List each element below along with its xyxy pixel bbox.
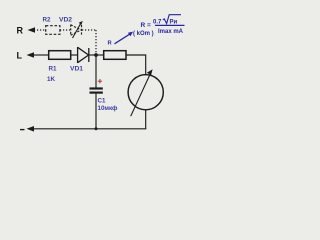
- wire meter to bottom rail: [145, 110, 147, 129]
- meter PA1 (circle): [128, 75, 163, 110]
- wire node A down to capacitor: [95, 55, 97, 88]
- svg-text:C1: C1: [98, 98, 106, 105]
- meter needle arrow: [131, 74, 151, 116]
- svg-text:0.7: 0.7: [153, 19, 162, 25]
- wire node A to resistor R: [96, 54, 104, 56]
- pointer arrow to formula: [115, 34, 130, 44]
- node A junction: [94, 53, 98, 57]
- polarity + mark (red): [98, 79, 102, 83]
- svg-text:L: L: [17, 51, 23, 61]
- svg-text:VD2: VD2: [59, 17, 72, 24]
- resistor R2 (dashed, optional): [46, 26, 60, 35]
- resistor R1: [49, 51, 71, 60]
- diode VD1: [78, 47, 89, 63]
- svg-text:VD1: VD1: [70, 66, 83, 73]
- formula R = 0.7*sqrt(Pi)/Imax mA: [133, 15, 185, 37]
- minus label: [20, 129, 25, 131]
- wire R1 to VD1: [71, 54, 78, 56]
- svg-text:10мкф: 10мкф: [98, 105, 118, 112]
- svg-text:R2: R2: [43, 17, 52, 24]
- junction at bottom rail: [95, 127, 98, 130]
- wire dotted R2 to VD2: [60, 29, 70, 31]
- wire resistor R to corner: [126, 55, 146, 75]
- wire VD1 to node A: [89, 54, 96, 56]
- resistor R (series to meter): [104, 51, 126, 60]
- wire L arrow to R1: [33, 54, 49, 56]
- capacitor C1: [90, 87, 103, 89]
- svg-text:Imax mA: Imax mA: [158, 29, 184, 35]
- bottom rail wire: [33, 128, 146, 130]
- svg-text:1K: 1K: [47, 76, 56, 83]
- wire dotted R row left: [34, 29, 45, 31]
- svg-text:( kOm ): ( kOm ): [133, 31, 154, 37]
- svg-text:R: R: [17, 26, 24, 36]
- wire dotted VD2 to corner: [82, 29, 96, 31]
- diode VD2 (dashed, optional): [71, 25, 82, 36]
- arrow on bottom rail: [27, 126, 35, 132]
- svg-text:R1: R1: [49, 66, 58, 73]
- arrow through VD2: [73, 24, 81, 39]
- arrow to L output: [27, 52, 35, 58]
- svg-text:R =: R =: [141, 22, 152, 29]
- wire dotted vertical down to node A: [95, 30, 97, 53]
- svg-text:Pи: Pи: [170, 19, 178, 25]
- arrow to R output: [28, 27, 36, 33]
- wire capacitor to bottom rail: [95, 94, 97, 129]
